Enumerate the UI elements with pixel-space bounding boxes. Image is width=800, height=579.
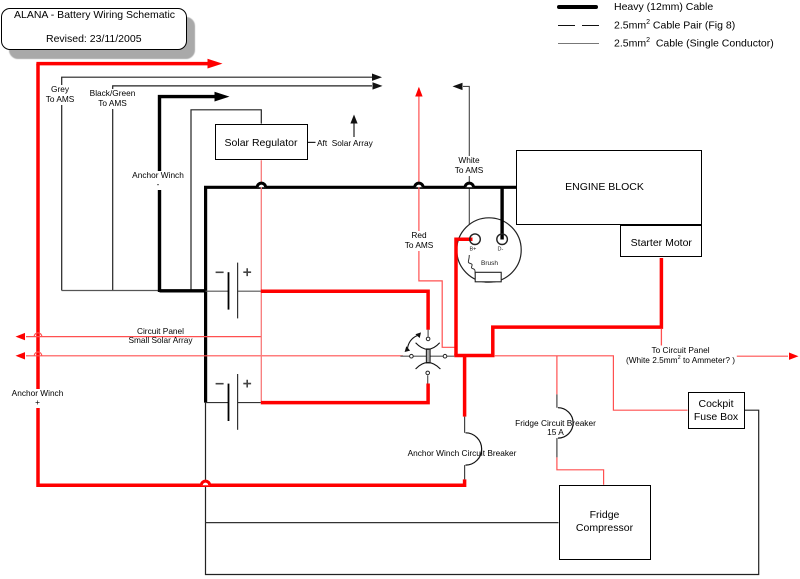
label: aft solar array — [317, 138, 387, 148]
wire: fridge breaker dark segment lower — [556, 438, 558, 457]
legend cable pair sample — [558, 25, 575, 27]
red thin wire: to circuit panel run, drop to cockpit fuse box — [494, 356, 688, 410]
legend heavy cable sample — [557, 5, 598, 9]
alternator U1: terminal labels — [470, 247, 504, 253]
red heavy wire: battery 2 positive to switch bottom — [261, 384, 428, 403]
legend heavy cable text — [614, 1, 713, 13]
legend single conductor sample — [558, 43, 599, 44]
red thin wire: starter node stub to label — [660, 329, 662, 346]
label: anchor winch circuit breaker — [408, 448, 517, 458]
wire: left collector to negative bus — [62, 290, 206, 292]
alternator U1: B+ terminal — [470, 234, 481, 245]
battery B2 polarity signs — [216, 380, 252, 388]
red thin wire: fridge breaker to fridge compressor — [557, 457, 604, 484]
starter motor box — [620, 225, 702, 257]
svg-text:D-: D- — [498, 247, 504, 253]
label: white to AMS — [455, 156, 484, 176]
engine block box — [516, 150, 702, 225]
selector switch S1: rotation arrow — [405, 332, 421, 352]
solar regulator box — [215, 124, 308, 160]
label: circuit panel / small solar array — [128, 327, 192, 346]
wire: solar regulator right stub — [308, 141, 316, 143]
svg-text:Brush: Brush — [481, 260, 498, 267]
wire: fridge compressor negative lead — [206, 522, 559, 524]
red thin wire: red-to-AMS with up arrow — [415, 87, 455, 348]
heavy wire: main negative bus horizontal and vertical — [206, 187, 516, 402]
selector switch S1: feed line and side contacts — [400, 354, 454, 358]
battery B1 positive plate — [238, 263, 261, 319]
red heavy wire: distribution node horizontal — [454, 354, 494, 358]
svg-text:B+: B+ — [470, 247, 477, 253]
wire: anchor winch breaker dark segment lower — [464, 465, 466, 479]
red heavy wire: alternator B+ down to distribution node — [456, 239, 473, 355]
hop: red-to-AMS lead over negative bus — [415, 183, 423, 187]
selector switch S1: upper arc — [416, 343, 440, 350]
red heavy wire: anchor winch breaker feed down — [463, 356, 467, 417]
hop: circuit panel line 1 over anchor winch positive — [34, 333, 42, 337]
red thin wire: circuit panel line 2 (to selector switch) with left arrow — [16, 352, 404, 359]
label: anchor winch positive — [12, 389, 64, 408]
alternator U1 body circle — [457, 218, 521, 282]
battery B1 negative plate — [206, 272, 229, 309]
legend cable pair text — [614, 19, 735, 32]
circuit breaker CB1 (anchor winch) arc — [466, 433, 482, 465]
battery B2 positive plate — [238, 374, 261, 430]
label: grey to AMS — [46, 85, 75, 105]
title box — [1, 8, 187, 50]
wire: anchor winch breaker dark segment upper — [464, 417, 466, 433]
hop: solar lead over negative bus — [257, 183, 265, 187]
alternator U1: brush box — [475, 272, 501, 282]
battery B2 negative plate — [206, 384, 229, 421]
red thin arrow: to circuit panel continuation — [737, 353, 799, 360]
red heavy wire: top feed arrow to AMS — [36, 59, 222, 69]
wire: black/green-to-AMS thin line with arrow — [113, 82, 383, 290]
label: black/green to AMS — [90, 89, 136, 109]
red heavy wire: anchor winch positive feed — [38, 64, 465, 486]
selector switch S1: lower arc — [416, 363, 441, 369]
red thin wire: solar regulator positive output — [260, 160, 262, 401]
wire: white-to-AMS line with left arrow — [453, 83, 470, 255]
selector switch S1: bottom contact — [426, 371, 430, 383]
label: anchor winch negative — [132, 171, 184, 191]
red heavy wire: starter motor feed — [493, 258, 662, 357]
heavy wire: anchor winch negative with arrow — [160, 92, 230, 292]
hop: white-to-AMS lead over negative bus — [465, 183, 473, 187]
label: fridge circuit breaker — [515, 419, 596, 439]
cockpit fuse box — [688, 392, 745, 429]
arrow: aft solar array pointer — [350, 115, 357, 138]
selector switch S1: top contact — [426, 330, 430, 341]
wire: fridge breaker dark segment upper — [556, 394, 558, 407]
red thin wire: circuit panel / small solar array line 1 with left arrow — [16, 333, 262, 340]
alternator U1: D- terminal — [497, 234, 508, 245]
selector switch S1: rotor bar — [426, 349, 430, 363]
wire: grey-to-AMS thin line with arrow — [62, 74, 382, 291]
wire: ground return loop (battery2 negative to bottom bus) — [206, 403, 759, 575]
hop: circuit panel line 2 over anchor winch positive — [34, 352, 42, 356]
heavy wire: D- terminal to negative bus — [500, 186, 503, 240]
wire: solar regulator negative lead — [191, 110, 261, 291]
alternator U1: brush squiggle — [468, 255, 475, 275]
label: to circuit panel — [626, 346, 735, 365]
circuit breaker CB2 (fridge) arc — [558, 408, 573, 438]
hop: anchor winch positive over battery negative riser — [201, 481, 209, 485]
fridge compressor box — [559, 485, 651, 561]
label: red to AMS — [405, 231, 434, 251]
red heavy wire: battery 1 positive to switch top — [261, 291, 428, 330]
red thin wire: fridge breaker feed upper segment — [556, 356, 558, 395]
battery B1 polarity signs — [216, 268, 252, 276]
legend single conductor text — [614, 37, 774, 50]
